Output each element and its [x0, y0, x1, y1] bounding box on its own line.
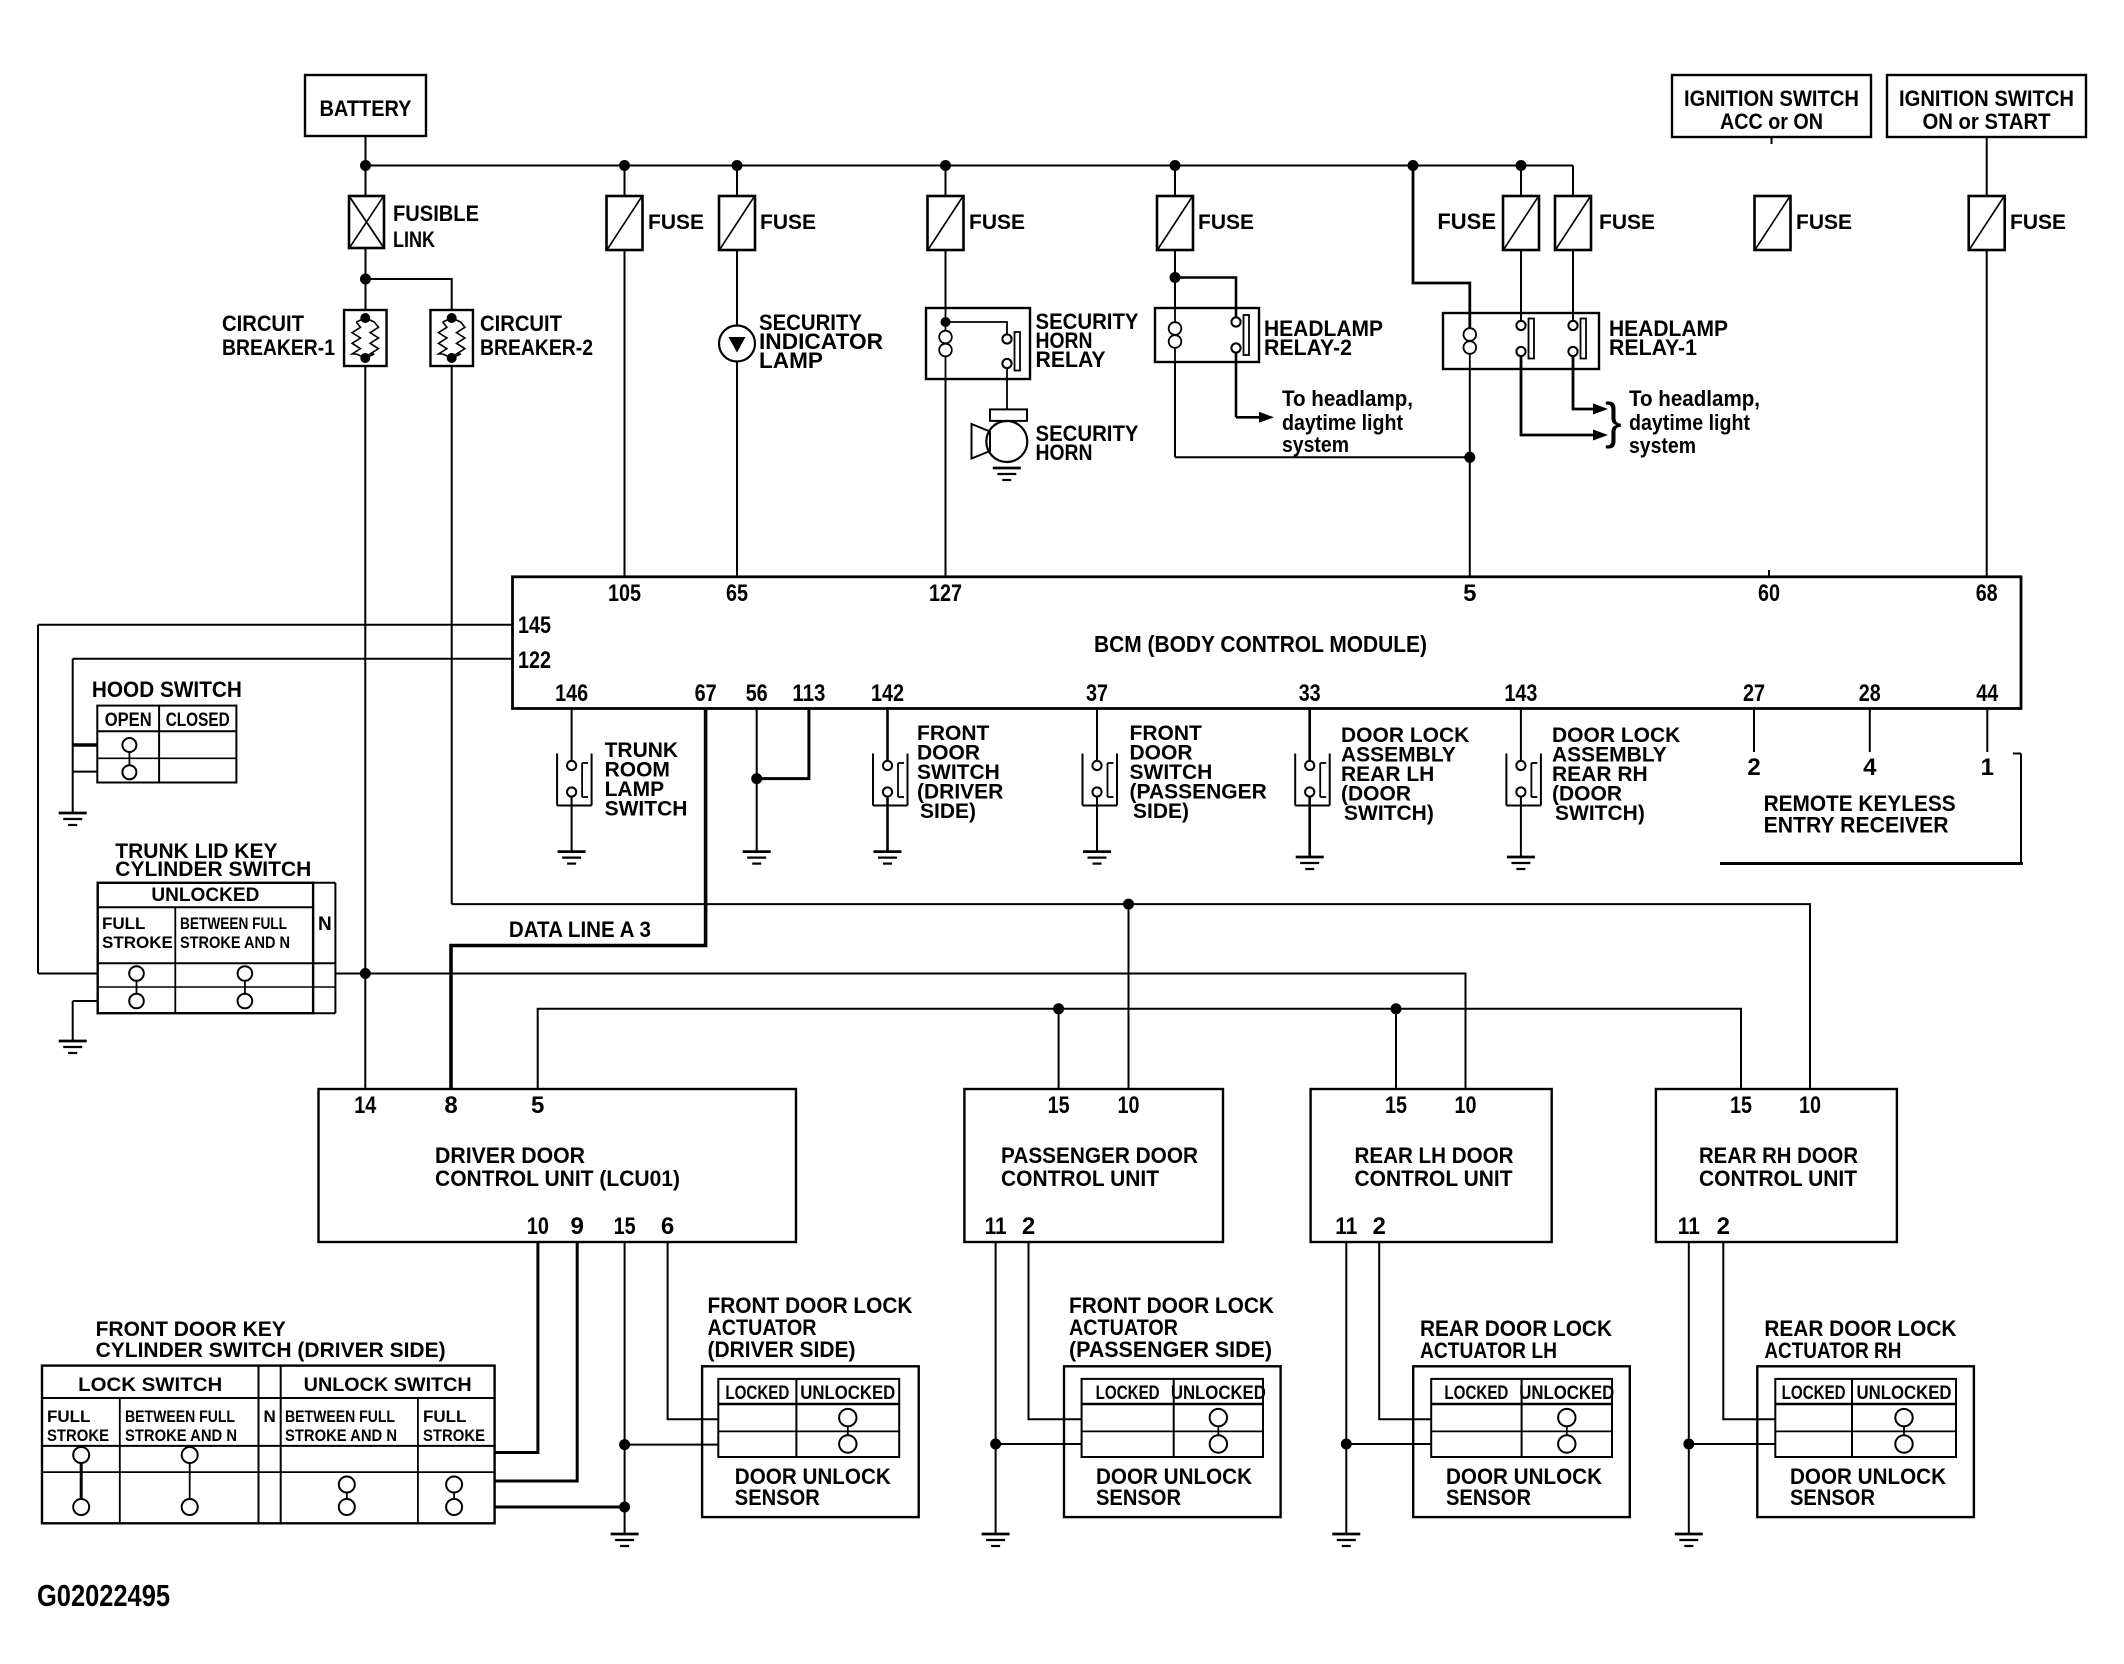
- wire branch to breaker-2: [366, 279, 452, 310]
- wire BCM pin 143: [1520, 709, 1522, 762]
- BCM pin 44 label: [1976, 680, 1999, 707]
- svg-text:SIDE): SIDE): [1133, 800, 1189, 823]
- ignition ACC stub: [1771, 137, 1773, 144]
- fuse F4: [1157, 196, 1193, 250]
- front door switch passenger: [1083, 754, 1118, 806]
- wire driver pin 6: [668, 1242, 719, 1419]
- svg-text:LOCK SWITCH: LOCK SWITCH: [78, 1375, 222, 1396]
- wire pin 11 rear door lock actuator RH: [1683, 1242, 1775, 1534]
- wire relay-1 contact A arrow: [1521, 356, 1608, 440]
- svg-text:14: 14: [354, 1092, 377, 1119]
- svg-text:SWITCH): SWITCH): [1344, 802, 1434, 825]
- wire relay-1 coil to BCM pin 5: [1469, 369, 1471, 577]
- fds passenger ground: [1083, 852, 1111, 864]
- label fuse F1: [648, 211, 704, 234]
- junction fuse F3 bus: [940, 160, 951, 171]
- BCM pin 113 label: [792, 680, 825, 707]
- label headlamp relay-1: [1609, 316, 1728, 360]
- wire BCM pin 146: [571, 709, 573, 762]
- svg-text:FRONT DOOR KEY: FRONT DOOR KEY: [96, 1318, 286, 1341]
- trunk lid key cylinder switch table: [98, 883, 336, 1013]
- wire BCM pin 27: [1753, 709, 1755, 753]
- svg-text:2: 2: [1717, 1213, 1730, 1240]
- svg-text:FULL: FULL: [423, 1407, 466, 1426]
- svg-text:56: 56: [746, 680, 768, 707]
- security horn relay coil: [939, 331, 952, 357]
- fds driver ground: [874, 852, 902, 864]
- label security horn: [1036, 421, 1139, 465]
- svg-text:OPEN: OPEN: [105, 710, 152, 731]
- svg-text:CONTROL UNIT (LCU01): CONTROL UNIT (LCU01): [435, 1166, 680, 1191]
- driver door control unit (LCU01): [319, 1089, 797, 1242]
- svg-text:DRIVER DOOR: DRIVER DOOR: [435, 1143, 585, 1168]
- ground rear door lock actuator LH: [1332, 1534, 1360, 1546]
- front door switch driver: [873, 754, 908, 806]
- label door lock assembly rear LH: [1341, 724, 1469, 825]
- wire BCM pin 28: [1869, 709, 1871, 753]
- BCM pin 142 label: [871, 680, 904, 707]
- svg-text:15: 15: [1385, 1092, 1407, 1119]
- svg-text:UNLOCK SWITCH: UNLOCK SWITCH: [304, 1375, 472, 1396]
- svg-text:33: 33: [1299, 680, 1321, 707]
- junction on pin 5 wire: [1464, 452, 1475, 463]
- wire relay contact to horn: [1006, 368, 1008, 409]
- junction driver pin15 lower: [619, 1502, 630, 1513]
- svg-text:146: 146: [555, 680, 588, 707]
- svg-text:145: 145: [518, 612, 551, 639]
- svg-text:10: 10: [1118, 1092, 1140, 1119]
- wire dla LH to ground: [1308, 797, 1311, 858]
- fuse F7: [1755, 196, 1791, 250]
- svg-text:LAMP: LAMP: [759, 348, 823, 373]
- label trunk room lamp switch: [605, 739, 688, 821]
- fusible link X diagonal: [349, 196, 384, 248]
- svg-text:SWITCH: SWITCH: [605, 798, 688, 821]
- svg-text:LINK: LINK: [393, 227, 435, 252]
- junction fuse F5 bus: [1516, 160, 1527, 171]
- ignition switch ON-START box: [1887, 75, 2086, 137]
- security horn relay wiring: [941, 308, 1008, 379]
- svg-text:15: 15: [614, 1213, 636, 1240]
- svg-text:FUSE: FUSE: [648, 211, 704, 234]
- wire BCM pin 33: [1308, 709, 1311, 762]
- BCM pin 33 label: [1299, 680, 1321, 707]
- svg-text:STROKE AND N: STROKE AND N: [285, 1426, 397, 1445]
- svg-text:67: 67: [695, 680, 717, 707]
- front door lock actuator (driver side): [702, 1293, 919, 1517]
- svg-text:15: 15: [1048, 1092, 1070, 1119]
- svg-text:44: 44: [1976, 680, 1999, 707]
- svg-text:N: N: [264, 1407, 276, 1426]
- wire relay-2 contact arrow: [1236, 353, 1274, 423]
- svg-text:142: 142: [871, 680, 904, 707]
- remote keyless entry receiver box: [1720, 754, 2023, 864]
- BCM pin 105 label: [608, 580, 641, 607]
- security horn relay box: [926, 308, 1030, 379]
- wire F2 to lamp: [736, 166, 738, 326]
- svg-text:STROKE: STROKE: [423, 1426, 485, 1445]
- svg-text:SWITCH): SWITCH): [1555, 802, 1645, 825]
- BCM pin 127 label: [929, 580, 962, 607]
- svg-text:BETWEEN FULL: BETWEEN FULL: [125, 1407, 235, 1426]
- junction bus2 CB1 wire: [360, 968, 371, 979]
- rear LH door control unit: [1311, 1089, 1552, 1242]
- svg-text:9: 9: [571, 1213, 584, 1240]
- wire pin 11 rear door lock actuator LH: [1341, 1242, 1431, 1534]
- wire driver pin 9: [495, 1242, 578, 1481]
- wire BCM pin 56 to ground: [756, 709, 758, 852]
- wire BCM pin 113: [757, 709, 809, 779]
- wire CB1 down to driver unit pin 14: [364, 366, 366, 1089]
- BCM pin 68 label: [1976, 580, 1998, 607]
- svg-text:11: 11: [1335, 1213, 1357, 1240]
- label front door switch driver: [917, 722, 1003, 823]
- svg-text:STROKE AND N: STROKE AND N: [180, 933, 290, 952]
- svg-text:ENTRY RECEIVER: ENTRY RECEIVER: [1764, 813, 1949, 838]
- wire key table to pin15: [495, 1506, 625, 1509]
- svg-text:BETWEEN FULL: BETWEEN FULL: [180, 914, 287, 933]
- junction battery bus: [360, 160, 371, 171]
- trunk lamp switch ground: [558, 852, 586, 864]
- headlamp relay-2 contact: [1231, 315, 1249, 355]
- wire pin15 to sensor: [625, 1444, 719, 1446]
- battery: [305, 75, 426, 136]
- svg-text:RELAY: RELAY: [1036, 347, 1106, 372]
- wire CB2 down to bus1: [451, 366, 453, 904]
- svg-text:CONTROL UNIT: CONTROL UNIT: [1001, 1166, 1160, 1191]
- BCM pin 5 label: [1463, 580, 1476, 607]
- svg-text:4: 4: [1863, 754, 1877, 781]
- svg-text:}: }: [1605, 393, 1622, 449]
- svg-text:IGNITION SWITCH: IGNITION SWITCH: [1684, 86, 1859, 111]
- label door lock assembly rear RH: [1552, 724, 1680, 825]
- svg-text:FUSE: FUSE: [1198, 211, 1254, 234]
- wire BCM pin 142: [886, 709, 889, 762]
- fuse F3: [928, 196, 964, 250]
- junction fuse F4 bus: [1170, 160, 1181, 171]
- wire passenger pin 10: [1128, 904, 1130, 1089]
- label circuit breaker-2: [480, 311, 593, 360]
- label fusible link: [393, 201, 479, 252]
- svg-text:CONTROL UNIT: CONTROL UNIT: [1699, 1166, 1858, 1191]
- junction relay feed bus: [1408, 160, 1419, 171]
- label fuse F5: [1437, 209, 1496, 234]
- label front door key cylinder switch: [96, 1318, 446, 1362]
- BCM pin 28 label: [1859, 680, 1881, 707]
- svg-text:system: system: [1629, 433, 1696, 458]
- svg-text:65: 65: [726, 580, 748, 607]
- BCM pin 65 label: [726, 580, 748, 607]
- rear RH door control unit: [1656, 1089, 1897, 1242]
- svg-text:daytime light: daytime light: [1629, 410, 1751, 435]
- wire driver pin 10: [495, 1242, 538, 1453]
- svg-text:127: 127: [929, 580, 962, 607]
- svg-text:113: 113: [792, 680, 825, 707]
- label security indicator lamp: [759, 310, 883, 373]
- svg-text:CYLINDER SWITCH: CYLINDER SWITCH: [115, 858, 311, 881]
- circuit breaker CB2: [430, 310, 473, 366]
- wire BCM pin 37: [1096, 709, 1098, 762]
- security horn: [972, 409, 1028, 462]
- label security horn relay: [1036, 309, 1139, 372]
- svg-text:BETWEEN FULL: BETWEEN FULL: [285, 1407, 395, 1426]
- label remote keyless entry receiver: [1764, 791, 1956, 838]
- headlamp relay-2 coil: [1169, 308, 1182, 362]
- data line A 3 wire: [451, 709, 706, 1090]
- label headlamp relay-2: [1264, 316, 1383, 360]
- wire passenger pin 15: [1058, 1009, 1060, 1089]
- BCM pin 56 label: [746, 680, 768, 707]
- wire fds passenger to ground: [1096, 797, 1098, 852]
- svg-text:FUSE: FUSE: [2010, 211, 2066, 234]
- junction below fusible link: [360, 274, 371, 285]
- svg-text:HOOD SWITCH: HOOD SWITCH: [92, 677, 242, 702]
- svg-text:BREAKER-1: BREAKER-1: [222, 335, 335, 360]
- BCM pin 60 label: [1758, 580, 1780, 607]
- svg-text:SENSOR: SENSOR: [1790, 1485, 1875, 1510]
- security indicator lamp: [719, 326, 755, 362]
- junction bus1 passenger pin10: [1123, 899, 1134, 910]
- wire BCM pin 145 to left frame: [38, 625, 513, 974]
- svg-text:5: 5: [531, 1092, 544, 1119]
- BCM pin 27 label: [1743, 680, 1765, 707]
- svg-text:FULL: FULL: [47, 1407, 90, 1426]
- junction fuse F2 bus: [732, 160, 743, 171]
- door lock assembly rear RH switch: [1506, 754, 1541, 806]
- curly brace: [1605, 393, 1622, 449]
- svg-text:FULL: FULL: [102, 914, 145, 933]
- label fuse F8: [2010, 211, 2066, 234]
- trunk room lamp switch: [557, 754, 592, 806]
- front door key cylinder switch table: [42, 1366, 495, 1524]
- svg-text:SENSOR: SENSOR: [1446, 1485, 1531, 1510]
- ground rear door lock actuator RH: [1675, 1534, 1703, 1546]
- bus wire 2: [335, 974, 1465, 1090]
- svg-text:G02022495: G02022495: [37, 1578, 170, 1613]
- svg-text:SIDE): SIDE): [920, 800, 976, 823]
- fuse F8: [1969, 196, 2005, 250]
- dla RH ground: [1507, 857, 1535, 869]
- label data line: [509, 917, 651, 942]
- svg-text:STROKE AND N: STROKE AND N: [125, 1426, 237, 1445]
- wire battery to bus: [365, 136, 367, 196]
- svg-text:REAR RH DOOR: REAR RH DOOR: [1699, 1143, 1858, 1168]
- junction fuse F1 bus: [619, 160, 630, 171]
- pin 56 ground: [743, 852, 771, 864]
- svg-text:FUSE: FUSE: [1599, 211, 1655, 234]
- svg-text:LOCKED: LOCKED: [725, 1383, 789, 1404]
- svg-text:CIRCUIT: CIRCUIT: [222, 311, 305, 336]
- dla LH ground: [1296, 857, 1324, 869]
- svg-text:6: 6: [661, 1213, 674, 1240]
- hood switch ground: [59, 813, 87, 825]
- svg-text:UNLOCKED: UNLOCKED: [151, 885, 259, 906]
- svg-text:UNLOCKED: UNLOCKED: [1857, 1383, 1952, 1404]
- svg-text:BCM (BODY CONTROL MODULE): BCM (BODY CONTROL MODULE): [1094, 631, 1427, 657]
- rear door lock actuator LH: [1413, 1316, 1630, 1517]
- label fuse F2: [760, 211, 816, 234]
- svg-text:143: 143: [1504, 680, 1537, 707]
- BCM (body control module) box: [513, 577, 2022, 709]
- svg-text:STROKE: STROKE: [47, 1426, 109, 1445]
- svg-text:UNLOCKED: UNLOCKED: [1519, 1383, 1614, 1404]
- svg-text:FUSIBLE: FUSIBLE: [393, 201, 479, 226]
- wire F1 to BCM pin 105: [624, 166, 626, 577]
- label to headlamp relay-2: [1282, 386, 1413, 457]
- wire pin 2 rear door lock actuator LH: [1379, 1242, 1431, 1419]
- svg-text:FUSE: FUSE: [760, 211, 816, 234]
- svg-text:SENSOR: SENSOR: [735, 1485, 820, 1510]
- svg-text:68: 68: [1976, 580, 1998, 607]
- svg-text:RELAY-1: RELAY-1: [1609, 335, 1697, 360]
- svg-text:PASSENGER DOOR: PASSENGER DOOR: [1001, 1143, 1198, 1168]
- svg-text:LOCKED: LOCKED: [1782, 1383, 1846, 1404]
- svg-text:27: 27: [1743, 680, 1765, 707]
- passenger door control unit: [964, 1089, 1223, 1242]
- wire relay coil to BCM pin 127: [945, 379, 947, 577]
- wire trunk row2 to ground: [73, 1001, 98, 1041]
- svg-text:60: 60: [1758, 580, 1780, 607]
- wire dla RH to ground: [1520, 797, 1522, 858]
- svg-text:CONTROL UNIT: CONTROL UNIT: [1355, 1166, 1514, 1191]
- svg-text:10: 10: [1455, 1092, 1477, 1119]
- svg-text:UNLOCKED: UNLOCKED: [800, 1383, 895, 1404]
- figure number: [37, 1578, 170, 1613]
- label BCM: [1094, 631, 1427, 657]
- svg-text:FUSE: FUSE: [1796, 211, 1852, 234]
- rear door lock actuator RH: [1757, 1316, 1974, 1517]
- receiver pin 4 label: [1863, 754, 1877, 781]
- label hood switch: [92, 677, 242, 702]
- svg-text:RELAY-2: RELAY-2: [1264, 335, 1352, 360]
- junction driver pin15 upper: [619, 1439, 630, 1450]
- wire bus corner to F6 to relay-1: [1572, 166, 1574, 321]
- svg-text:11: 11: [1678, 1213, 1700, 1240]
- wire trunk lamp switch to ground: [571, 797, 573, 852]
- wire bus to relay-1 coil: [1413, 166, 1470, 329]
- headlamp relay-1 contact A: [1516, 319, 1534, 359]
- svg-text:2: 2: [1747, 754, 1760, 781]
- circuit breaker CB1: [344, 310, 387, 366]
- wire ignition to F8: [1986, 137, 1988, 196]
- BCM pin 145 label: [518, 612, 551, 639]
- wire F4 to relay-2: [1174, 166, 1176, 309]
- label fuse F7: [1796, 211, 1852, 234]
- label fuse F3: [969, 211, 1025, 234]
- label fuse F4: [1198, 211, 1254, 234]
- svg-text:IGNITION SWITCH: IGNITION SWITCH: [1899, 86, 2074, 111]
- svg-text:8: 8: [444, 1092, 457, 1119]
- bus wire 3: [538, 1009, 1741, 1089]
- svg-text:10: 10: [527, 1213, 549, 1240]
- bus line from battery: [366, 165, 1574, 167]
- svg-text:ACC or ON: ACC or ON: [1720, 109, 1823, 134]
- svg-text:15: 15: [1730, 1092, 1752, 1119]
- svg-text:10: 10: [1799, 1092, 1821, 1119]
- svg-text:LOCKED: LOCKED: [1096, 1383, 1160, 1404]
- svg-text:UNLOCKED: UNLOCKED: [1171, 1383, 1266, 1404]
- fuse F5: [1503, 196, 1539, 250]
- hood switch table: [97, 706, 236, 783]
- front door lock actuator (passenger side): [1064, 1293, 1281, 1517]
- ignition switch ACC box: [1672, 75, 1871, 137]
- BCM pin 143 label: [1504, 680, 1537, 707]
- receiver pin 2 label: [1747, 754, 1760, 781]
- svg-text:(DRIVER SIDE): (DRIVER SIDE): [708, 1337, 856, 1362]
- svg-text:122: 122: [518, 647, 551, 674]
- svg-text:To headlamp,: To headlamp,: [1629, 386, 1760, 411]
- wire driver pin 15: [624, 1242, 626, 1534]
- svg-text:SENSOR: SENSOR: [1096, 1485, 1181, 1510]
- svg-text:11: 11: [985, 1213, 1007, 1240]
- svg-text:CYLINDER SWITCH (DRIVER SIDE): CYLINDER SWITCH (DRIVER SIDE): [96, 1339, 446, 1362]
- svg-text:BREAKER-2: BREAKER-2: [480, 335, 593, 360]
- svg-text:BATTERY: BATTERY: [320, 96, 412, 121]
- wire left frame to trunk row1: [38, 973, 98, 975]
- BCM pin 37 label: [1086, 680, 1108, 707]
- fuse F2: [719, 196, 755, 250]
- svg-text:ACTUATOR LH: ACTUATOR LH: [1420, 1338, 1557, 1363]
- label trunk lid key cylinder switch: [115, 840, 311, 881]
- wire fusible link to junction: [365, 248, 367, 310]
- headlamp relay-1 coil: [1464, 328, 1477, 369]
- svg-text:CLOSED: CLOSED: [166, 710, 230, 731]
- BCM pin 60 stub: [1768, 570, 1770, 577]
- svg-text:HORN: HORN: [1036, 440, 1093, 465]
- svg-text:system: system: [1282, 432, 1349, 457]
- wire relay-2 coil to pin5 node: [1175, 362, 1470, 457]
- BCM pin 67 label: [695, 680, 717, 707]
- svg-text:1: 1: [1981, 754, 1994, 781]
- wire to relay-2 contact: [1175, 278, 1236, 318]
- headlamp relay-1 box: [1443, 313, 1599, 369]
- svg-text:28: 28: [1859, 680, 1881, 707]
- junction bus3 rearLH pin15: [1391, 1003, 1402, 1014]
- fusible link FL: [349, 196, 384, 248]
- wire pin 2 front door lock actuator (passenger side): [1029, 1242, 1082, 1419]
- fuse F1: [607, 196, 643, 250]
- junction pin56: [751, 773, 762, 784]
- label front door switch passenger: [1130, 722, 1267, 823]
- receiver pin 1 label: [1981, 754, 1994, 781]
- junction relay-2 contact feed: [1170, 272, 1181, 283]
- wire F8 to BCM pin 68: [1986, 250, 1988, 577]
- svg-text:ACTUATOR RH: ACTUATOR RH: [1764, 1338, 1901, 1363]
- bus wire 1: [452, 904, 1810, 1089]
- svg-text:37: 37: [1086, 680, 1108, 707]
- headlamp relay-2 box: [1155, 308, 1259, 362]
- label circuit breaker-1: [222, 311, 335, 360]
- svg-text:ON or START: ON or START: [1923, 109, 2052, 134]
- junction bus3 passenger pin15: [1053, 1003, 1064, 1014]
- svg-text:105: 105: [608, 580, 641, 607]
- svg-text:2: 2: [1022, 1213, 1035, 1240]
- svg-text:5: 5: [1463, 580, 1476, 607]
- wire F5 to relay-1: [1520, 166, 1522, 321]
- label fuse F6: [1599, 211, 1655, 234]
- wire F3 to security horn relay: [945, 166, 947, 309]
- svg-text:FUSE: FUSE: [969, 211, 1025, 234]
- svg-text:2: 2: [1373, 1213, 1386, 1240]
- svg-text:STROKE: STROKE: [102, 933, 173, 952]
- svg-text:FUSE: FUSE: [1437, 209, 1496, 234]
- driver pin15 ground: [611, 1534, 639, 1546]
- svg-text:(PASSENGER SIDE): (PASSENGER SIDE): [1069, 1337, 1272, 1362]
- wire lamp to BCM pin 65: [736, 362, 738, 577]
- wire BCM pin 44: [1986, 709, 1988, 753]
- label to headlamp relay-1: [1629, 386, 1760, 458]
- trunk switch ground: [59, 1041, 87, 1053]
